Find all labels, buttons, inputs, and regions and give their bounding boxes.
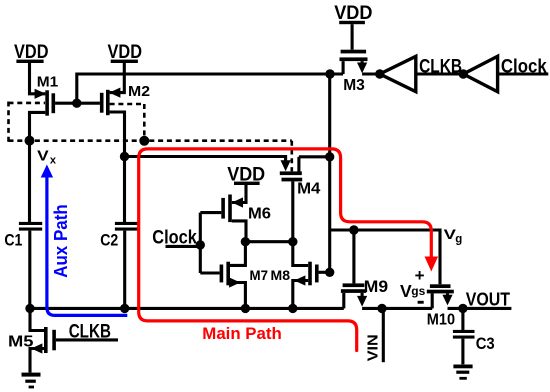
node dot inverter2 input wire <box>459 69 468 78</box>
transistor M4 (rotated PMOS, gate down) <box>280 157 321 198</box>
svg-text:M9: M9 <box>364 277 388 296</box>
label Vgs with plus minus <box>400 266 426 304</box>
svg-text:CLKB: CLKB <box>69 322 111 343</box>
wire logic node M6-M8 <box>245 240 292 243</box>
wire VDD to M3 gate <box>351 24 354 50</box>
wire M1 drain down to C1 <box>30 112 46 222</box>
svg-text:C3: C3 <box>476 334 495 353</box>
transistor M8 (NMOS, mirrored) <box>271 242 319 309</box>
wire VDD to M2 source <box>110 63 125 93</box>
capacitor C2 <box>100 222 138 249</box>
svg-text:C1: C1 <box>4 230 22 249</box>
node dot inverter1 output <box>375 69 384 78</box>
label Vg <box>444 226 463 245</box>
svg-text:M3: M3 <box>343 77 365 94</box>
inverter U1 (CLKB buffer) <box>380 56 416 91</box>
svg-text:M6: M6 <box>248 206 271 223</box>
wire node A up and right to M3 (boost top wire) <box>77 74 343 103</box>
wire M8 gate to M3/M4 vertical <box>319 271 330 274</box>
svg-text:x: x <box>50 154 57 166</box>
wire Clock to M6 gate <box>200 211 221 214</box>
svg-text:V: V <box>400 281 412 301</box>
Aux Path blue line with arrow <box>41 165 128 316</box>
dashed bulk line left vertical <box>7 102 10 142</box>
wire CLKB between inverters <box>416 72 464 75</box>
transistor M7 (NMOS) <box>220 242 269 309</box>
svg-text:g: g <box>455 233 462 245</box>
node dot rail/M7 source <box>241 304 250 313</box>
svg-text:M5: M5 <box>8 334 34 351</box>
wire Clock node vertical <box>199 213 202 273</box>
wire VIN stub <box>382 308 385 362</box>
boost wire node (125,156.5) to M4 source <box>125 157 286 167</box>
svg-text:M7: M7 <box>250 267 269 283</box>
svg-text:M4: M4 <box>297 180 320 197</box>
transistor M10 (rotated NMOS, gate up) <box>427 284 455 328</box>
Main Path red line with arrow <box>139 149 438 351</box>
node dot VIN junction <box>377 304 386 313</box>
node dot bulk/Vx <box>25 136 35 146</box>
node dot Clock <box>196 240 205 249</box>
node dot VOUT <box>458 304 467 313</box>
node dot rail/C2 <box>120 304 129 313</box>
node dot M4 drain / M3 vertical <box>325 152 334 161</box>
svg-text:gs: gs <box>411 284 425 298</box>
rail segment C (M10 to VOUT) <box>448 307 512 310</box>
rail segment A (left, to M9) <box>30 307 344 310</box>
node dot M8 gate <box>325 268 334 277</box>
transistor M9 (rotated NMOS, gate up) <box>341 277 388 308</box>
transistor M3 (rotated, gate up) <box>340 50 368 94</box>
wire M4 drain to M3 node <box>299 155 330 158</box>
rail segment B (M9 to M10) <box>362 307 432 310</box>
wire M4 gate down to logic node <box>291 181 294 241</box>
node Vx label <box>37 147 57 166</box>
wire M9 gate lead <box>352 230 355 283</box>
svg-text:Main Path: Main Path <box>202 324 281 343</box>
VDD supply symbol (above M2) <box>108 42 143 63</box>
wire C1 bottom to rail <box>28 231 31 309</box>
wire C2 bottom to rail <box>123 231 126 309</box>
wire M6 drain down to logic node <box>232 221 246 242</box>
wire M3 source to inverter 1 output <box>362 72 380 75</box>
transistor M1 (PMOS) <box>35 74 59 116</box>
dashed bulk vertical to M4 <box>290 141 293 172</box>
wire Vg horizontal <box>330 230 440 284</box>
node dot rail/C1/M5 <box>25 304 34 313</box>
ground (below M5) <box>22 373 41 389</box>
svg-text:V: V <box>37 147 49 164</box>
inverter U2 (Clock input) <box>463 56 497 91</box>
wire VDD to M6 source <box>232 185 246 203</box>
wire M1 gate to node A <box>55 102 77 105</box>
svg-text:+: + <box>415 266 425 285</box>
node dot bulk/M2 branch <box>139 136 149 146</box>
svg-text:CLKB: CLKB <box>419 57 462 78</box>
svg-text:M10: M10 <box>427 312 455 329</box>
capacitor C3 <box>453 308 495 352</box>
node A dot (M1/M2 gates junction) <box>72 99 81 108</box>
wire Clock underline to node <box>166 245 201 248</box>
wire Clock to M7 gate <box>200 271 219 274</box>
dashed bulk line from M2 <box>110 103 145 106</box>
transistor M6 (PMOS) <box>221 195 271 223</box>
node dot M3 drain / top wire <box>325 69 334 78</box>
svg-text:M2: M2 <box>128 83 150 100</box>
svg-text:Aux Path: Aux Path <box>51 204 71 278</box>
node dot C2/boost wire <box>120 152 129 161</box>
transistor M2 (PMOS, mirrored) <box>100 83 150 115</box>
dashed bulk long horizontal <box>9 139 292 142</box>
VDD supply symbol (top right, above M3) <box>334 3 372 24</box>
wire M2 drain down to C2 <box>110 112 125 222</box>
dashed bulk vertical at M2 <box>143 104 146 141</box>
svg-text:Clock: Clock <box>501 57 547 78</box>
node dot M9 gate on Vg wire <box>349 225 358 234</box>
dashed bulk line to M1 <box>9 102 46 105</box>
node dot rail/M8 source <box>288 304 297 313</box>
capacitor C1 <box>4 222 42 249</box>
svg-text:C2: C2 <box>100 230 118 249</box>
VDD supply symbol (left, above M1) <box>14 42 49 63</box>
VDD supply symbol (middle, above M6) <box>227 165 265 186</box>
svg-text:VOUT: VOUT <box>466 290 510 310</box>
svg-text:VIN: VIN <box>364 334 381 361</box>
vertical wire M3 node down through M4 drain to M8 gate <box>328 74 331 272</box>
wire VDD to M1 source <box>30 63 46 94</box>
svg-text:M1: M1 <box>37 74 59 91</box>
wire Clock input <box>498 72 549 75</box>
node dot M4 gate / M8 drain <box>288 237 297 246</box>
transistor M5 (NMOS, CLKB switch) <box>8 308 118 372</box>
node dot M6/M7 drains <box>241 237 250 246</box>
svg-text:M8: M8 <box>271 267 291 283</box>
wire M2 gate to node A <box>77 102 100 105</box>
ground (below C3) <box>453 339 472 380</box>
